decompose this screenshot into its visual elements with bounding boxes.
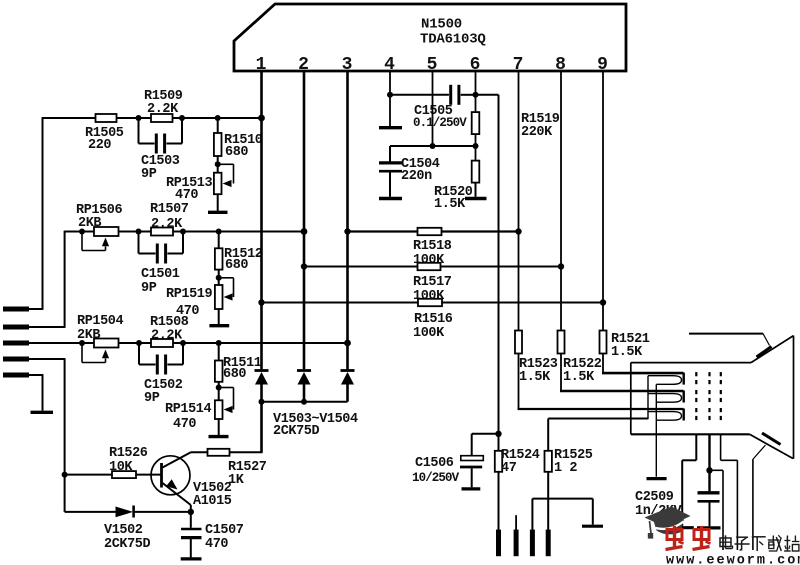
connector stub floating xyxy=(515,515,517,556)
pin 7 number label xyxy=(513,55,524,75)
CRT heater rail 2 xyxy=(655,384,657,477)
wire row2 left segment xyxy=(65,231,94,233)
label R1526 10K xyxy=(109,446,148,475)
svg-text:220n: 220n xyxy=(401,169,432,184)
wire RP1514 to ground xyxy=(218,419,220,435)
pin 1 number label xyxy=(256,55,267,75)
wire R1527 to pin1 column xyxy=(230,451,263,453)
wire row3 to R1511 xyxy=(218,343,220,361)
wire stub-a to row1 riser xyxy=(29,117,43,310)
resistor R1519 xyxy=(472,112,480,134)
svg-text:1.5K: 1.5K xyxy=(611,345,643,360)
wire R1517 net left (pin2 to R1517) xyxy=(304,266,418,268)
wire pin3 column below diode xyxy=(346,384,349,402)
resistor R1507 xyxy=(151,228,173,236)
ground under RP1514 xyxy=(209,435,229,438)
wire CRT grid lead 1 (jog left) xyxy=(682,434,696,526)
wire R1511 to RP1514 xyxy=(218,382,220,401)
resistor R1525 xyxy=(545,451,552,472)
CRT gun 1 cathode bar xyxy=(683,373,685,385)
label RP1519 470 xyxy=(166,287,213,319)
resistor R1508 xyxy=(151,339,173,347)
svg-text:RP1504: RP1504 xyxy=(77,314,124,329)
wire C1504 net (pin5/pin6 to C1504) xyxy=(390,146,476,162)
node row3/C1502 left xyxy=(136,340,142,346)
watermark graduation cap xyxy=(645,507,691,539)
node row2 at pin2 column xyxy=(301,228,308,235)
svg-text:470: 470 xyxy=(173,417,196,432)
wire node to R1524 xyxy=(498,434,500,451)
wire R1510 to RP1513 xyxy=(217,156,219,173)
resistor R1520 xyxy=(472,161,480,183)
wire pin 2 column xyxy=(303,70,306,369)
capacitor C1501 (parallel with R1507) xyxy=(139,232,184,264)
node diode bus at pin1 xyxy=(259,399,265,405)
resistor R1509 xyxy=(151,114,173,122)
wire node to focus lead xyxy=(710,470,724,550)
CRT gun 2 heater filament xyxy=(648,394,682,403)
svg-text:220K: 220K xyxy=(521,125,553,140)
capacitor C2509 xyxy=(698,493,720,527)
wire row2 to R1512 xyxy=(218,232,220,249)
node pin6/C1505/feedback xyxy=(473,92,479,98)
node row1 at pin1 column xyxy=(258,115,265,122)
ground under R1520 xyxy=(465,197,487,200)
svg-text:470: 470 xyxy=(205,537,228,552)
svg-text:9P: 9P xyxy=(141,281,157,296)
svg-text:C1501: C1501 xyxy=(141,267,180,282)
CRT funnel outline xyxy=(750,336,794,459)
wire CRT grid lead 3 (jog right) xyxy=(721,434,738,550)
label R1516 100K xyxy=(413,312,453,341)
svg-text:470: 470 xyxy=(175,188,198,203)
ground under heater rail xyxy=(647,477,667,480)
node row2/R1512 branch xyxy=(216,229,222,235)
svg-text:1K: 1K xyxy=(228,473,245,488)
wire R1516 net left (pin1 to R1516) xyxy=(262,302,419,304)
svg-text:2.2K: 2.2K xyxy=(147,102,179,117)
svg-text:1.5K: 1.5K xyxy=(563,370,595,385)
svg-text:2KB: 2KB xyxy=(78,216,101,231)
wire row1 right segment to pin1 xyxy=(173,117,262,119)
node row3/C1502 right xyxy=(180,340,186,346)
wire feedback column (x=498.5) down to R1524 node xyxy=(498,95,500,434)
resistor R1510 xyxy=(214,133,222,156)
capacitor C1504 xyxy=(379,163,402,197)
node row1/R1510 branch xyxy=(215,115,221,121)
node R1517 net at pin2 xyxy=(301,263,307,269)
capacitor C1506 (electrolytic) xyxy=(460,456,483,488)
label RP1506 2KB xyxy=(76,203,123,231)
wire grid-ground net xyxy=(532,499,592,530)
svg-text:RP1514: RP1514 xyxy=(165,402,212,417)
svg-text:N1500: N1500 xyxy=(421,17,462,33)
wire pin 8 column xyxy=(560,70,562,331)
ground under grid lead 1 xyxy=(676,526,694,529)
node row1/C1503 right xyxy=(179,115,185,121)
wire RP1513 to ground xyxy=(217,194,219,211)
svg-text:R1507: R1507 xyxy=(150,202,189,217)
node pin4/C1505 xyxy=(387,92,393,98)
ground under C2509 xyxy=(697,526,721,529)
svg-text:2KB: 2KB xyxy=(77,328,100,343)
CRT neck outline xyxy=(631,363,751,435)
CRT top anode tick xyxy=(757,347,772,358)
pin 4 number label xyxy=(384,55,395,75)
wire row1 to R1510 xyxy=(217,118,219,133)
svg-text:220: 220 xyxy=(88,138,111,153)
wire R1526 to base xyxy=(136,474,162,476)
ground bottom middle xyxy=(582,525,603,528)
node base net / stub-d column xyxy=(62,472,68,478)
label RP1504 2KB xyxy=(77,314,124,343)
wire row1 left segment xyxy=(43,117,96,119)
potentiometer RP1519 xyxy=(215,278,234,309)
svg-text:R1517: R1517 xyxy=(413,275,452,290)
svg-text:RP1519: RP1519 xyxy=(166,287,213,302)
connector stub on grid-ground net xyxy=(530,530,535,557)
node R1512/RP1519 junction xyxy=(216,275,222,281)
connector stub under R1524 xyxy=(496,530,501,557)
wire R1518 net left (pin3 to R1518) xyxy=(348,230,418,232)
svg-text:680: 680 xyxy=(225,145,248,160)
wire to ground stem xyxy=(592,499,594,525)
node R1518 net at pin7 xyxy=(515,228,521,234)
wire row2 mid segment xyxy=(119,231,152,233)
label V1503~V1504 2CK75D xyxy=(273,412,358,439)
wire row3 right segment to pin3 xyxy=(173,342,348,344)
resistor R1527 xyxy=(208,449,230,456)
svg-text:1 2: 1 2 xyxy=(554,461,577,476)
capacitor C1507 xyxy=(181,512,202,558)
label V1502 2CK75D xyxy=(104,523,151,552)
label C1507 470 xyxy=(205,523,244,552)
node R1516 net at pin9 xyxy=(600,299,606,305)
CRT gun 2 cathode bar xyxy=(683,391,685,403)
potentiometer RP1514 xyxy=(215,388,234,420)
resistor R1511 xyxy=(215,361,223,382)
wire row2 right segment to pin2 xyxy=(173,231,304,233)
diode V1503/V1504 (2CK75D) on pin 2 column xyxy=(297,371,311,385)
resistor R1517 xyxy=(418,263,441,270)
label R1525 1 2 xyxy=(554,448,593,476)
node row2/RP1506 wiper xyxy=(79,229,85,235)
wire stub-e to ground xyxy=(29,374,43,410)
wire R1520 to ground xyxy=(475,183,477,197)
node pin6 column / C1504 net xyxy=(473,143,479,149)
CRT gun 3 cathode bar xyxy=(683,409,685,421)
pin 8 number label xyxy=(555,55,566,75)
capacitor C1502 (parallel with R1508) xyxy=(139,343,183,375)
svg-text:2.2K: 2.2K xyxy=(151,329,183,344)
CRT gun 3 heater filament xyxy=(648,412,682,421)
label R1510 680 xyxy=(224,133,263,160)
CRT bottom anode tick xyxy=(762,433,781,445)
label R1518 100K xyxy=(413,239,452,268)
wire CRT bottom anode lead xyxy=(753,445,766,550)
wire stub-b to row2 riser xyxy=(29,231,65,328)
wire pin 9 column xyxy=(602,70,604,331)
node R1517 net at pin8 xyxy=(558,263,564,269)
svg-text:680: 680 xyxy=(223,367,246,382)
node row1/C1503 left xyxy=(136,115,142,121)
svg-text:9P: 9P xyxy=(141,167,157,182)
node row3 at pin3 column xyxy=(344,340,351,347)
ground under C1504 xyxy=(379,197,402,200)
node row2/C1501 left xyxy=(136,229,142,235)
label R1523 1.5K xyxy=(519,357,558,385)
svg-text:10K: 10K xyxy=(109,460,133,475)
node collector/diode/C1507 xyxy=(188,509,194,515)
wire pin 3 column xyxy=(346,70,349,369)
svg-text:2CK75D: 2CK75D xyxy=(273,424,320,439)
node row2/C1501 right xyxy=(180,229,186,235)
wire R1525 to connector stub xyxy=(547,472,549,530)
ground under pin 4 xyxy=(379,126,402,129)
wire pin 4 column xyxy=(389,70,391,126)
node row3/R1511 branch xyxy=(216,340,222,346)
svg-text:2CK75D: 2CK75D xyxy=(104,537,151,552)
wire row3 left segment xyxy=(29,342,94,344)
label C1502 9P xyxy=(144,378,183,406)
resistor R1505 xyxy=(96,114,117,122)
label C1503 9P xyxy=(141,154,180,182)
wire emitter to R1527 xyxy=(191,451,208,453)
wire R1525 to CRT grid (y=418.5) xyxy=(548,418,648,420)
label C1506 10/250V xyxy=(412,456,460,485)
svg-text:9P: 9P xyxy=(144,391,160,406)
potentiometer RP1513 xyxy=(214,164,234,194)
svg-text:2.2K: 2.2K xyxy=(151,217,183,232)
watermark red character chong 1 xyxy=(666,526,684,550)
CRT heater rail 1 xyxy=(647,376,649,420)
label C1504 220n xyxy=(401,157,440,184)
connector stub pin e (to ground) xyxy=(3,373,29,378)
label V1502 A1015 xyxy=(193,481,232,509)
wire pin 1 column xyxy=(260,70,263,369)
svg-text:C1506: C1506 xyxy=(415,456,454,471)
watermark red character chong 2 xyxy=(693,526,711,550)
svg-text:V1502: V1502 xyxy=(104,523,143,538)
node diode bus at pin2 xyxy=(301,399,307,405)
CRT gun 1 heater filament xyxy=(648,376,682,385)
label R1509 2.2K xyxy=(144,89,183,117)
wire R1516 net right (to pin9) xyxy=(442,302,603,304)
label C1501 9P xyxy=(141,267,180,296)
svg-text:R1516: R1516 xyxy=(414,312,453,327)
svg-text:0.1/250V: 0.1/250V xyxy=(413,116,467,130)
label R1520 1.5K xyxy=(434,185,473,212)
label R1517 100K xyxy=(413,275,452,304)
wire stub-d dropper to base net xyxy=(29,358,65,475)
node R1511/RP1514 junction xyxy=(216,385,222,391)
pin 2 number label xyxy=(298,55,309,75)
label R1527 1K xyxy=(228,460,267,488)
svg-text:R1518: R1518 xyxy=(413,239,452,254)
wire C1506 branch xyxy=(472,434,499,456)
diode V1502 2CK75D xyxy=(116,506,191,518)
label C1505 0.1/250V xyxy=(413,104,467,130)
wire pin 6 column upper xyxy=(475,70,477,112)
pin 6 number label xyxy=(470,55,481,75)
wire pin6 node to feedback column xyxy=(476,94,499,96)
label R1522 1.5K xyxy=(563,357,602,385)
svg-text:R1526: R1526 xyxy=(109,446,148,461)
node R1516 net at pin1 xyxy=(258,299,264,305)
node R1518 net at pin3 xyxy=(344,228,350,234)
wire stub-d column to diode row xyxy=(65,475,116,512)
connector stub pin c (to row3) xyxy=(3,341,29,346)
wire R1525 top riser xyxy=(547,419,549,451)
ground under stub-e xyxy=(31,411,54,414)
svg-text:TDA6103Q: TDA6103Q xyxy=(420,32,486,48)
svg-text:www.eeworm.com: www.eeworm.com xyxy=(666,554,800,565)
pin 9 number label xyxy=(597,55,608,75)
node grid lead 2 xyxy=(706,467,712,473)
wire row3 mid segment xyxy=(119,342,152,344)
potentiometer RP1504 xyxy=(82,339,119,363)
label RP1514 470 xyxy=(165,402,212,432)
diode V1503 (2CK75D) on pin 1 column xyxy=(255,371,269,385)
watermark text dianzi xiazaizhan xyxy=(720,535,799,551)
label R1524 47 xyxy=(501,448,540,476)
wire CRT top anode lead xyxy=(689,334,770,346)
svg-text:C1507: C1507 xyxy=(205,523,244,538)
label R1505 220 xyxy=(85,126,124,153)
resistor R1512 xyxy=(215,248,223,269)
wire pin1 column below diode to R1527 xyxy=(260,384,263,452)
wire RP1519 to ground xyxy=(218,309,220,324)
svg-text:1.5K: 1.5K xyxy=(434,197,466,212)
connector stub pin b (to row2) xyxy=(3,325,29,330)
capacitor C1503 (parallel with R1509) xyxy=(139,118,183,154)
connector stub pin a (to row1) xyxy=(3,307,29,312)
wire R1523 to gun3 cathode xyxy=(518,354,684,410)
wire row1 mid segment xyxy=(117,117,152,119)
label R1508 2.2K xyxy=(150,315,189,344)
potentiometer RP1506 xyxy=(82,227,119,251)
label R1511 680 xyxy=(223,356,262,382)
transistor V1502 A1015 (PNP) xyxy=(151,452,191,512)
wire R1524 to connector stub xyxy=(498,472,500,530)
label C2509 1n/2KV xyxy=(635,490,683,519)
wire R1518 net right (to pin7) xyxy=(442,230,519,232)
svg-text:100K: 100K xyxy=(413,326,445,341)
op-amp/IC N1500 TDA6103Q body xyxy=(234,4,626,71)
ground bar under C1506 xyxy=(462,487,481,490)
svg-text:680: 680 xyxy=(225,258,248,273)
label R1521 1.5K xyxy=(611,332,650,360)
node R1510/RP1513 junction xyxy=(215,161,221,167)
wire pin2 column below diode xyxy=(303,384,306,402)
pin 3 number label xyxy=(342,55,353,75)
resistor R1518 xyxy=(418,228,442,235)
connector stub pin d (to transistor base net) xyxy=(3,357,29,362)
CRT grid electrodes (dashed) xyxy=(696,372,721,420)
wire base net left xyxy=(65,474,112,476)
node feedback/R1524/C1506 xyxy=(495,431,501,437)
svg-text:10/250V: 10/250V xyxy=(412,471,460,485)
node pin5 to C1504 net xyxy=(430,143,436,149)
node row3/RP1504 wiper xyxy=(79,340,85,346)
label RP1513 470 xyxy=(166,176,213,203)
wire R1517 net right (to pin8) xyxy=(441,266,562,268)
resistor R1523 xyxy=(515,331,522,354)
wire CRT grid lead 2 to C2509 xyxy=(708,434,710,491)
label R1512 680 xyxy=(224,247,263,273)
svg-text:A1015: A1015 xyxy=(193,494,232,509)
pin 5 number label xyxy=(427,55,438,75)
wire R1522 to gun2 cathode xyxy=(560,354,684,392)
wire R1512 to RP1519 xyxy=(218,270,220,285)
ground under RP1519 xyxy=(209,324,229,327)
wire pin 5 column xyxy=(432,70,434,146)
wire diode cathode bus xyxy=(261,401,348,403)
capacitor C1505 (pin4 to pin6) xyxy=(390,85,476,105)
resistor R1516 xyxy=(418,299,442,306)
resistor R1524 xyxy=(495,451,502,472)
resistor R1521 xyxy=(600,331,607,354)
connector stub under R1525 xyxy=(546,530,551,557)
diode V1504 (2CK75D) on pin 3 column xyxy=(341,371,355,385)
ground bar under C1507 xyxy=(181,557,202,560)
wire R1521 to gun1 cathode xyxy=(602,354,684,374)
resistor R1522 xyxy=(558,331,565,354)
ground under RP1513 xyxy=(208,211,228,214)
svg-text:C2509: C2509 xyxy=(635,490,674,505)
wire R1519 to R1520 xyxy=(475,134,477,161)
resistor R1526 xyxy=(112,471,136,478)
label R1507 2.2K xyxy=(150,202,189,232)
watermark url www.eeworm.com xyxy=(666,554,800,565)
wire pin 7 column xyxy=(518,70,520,331)
svg-text:1.5K: 1.5K xyxy=(519,370,551,385)
svg-text:47: 47 xyxy=(501,461,517,476)
label R1519 220K xyxy=(521,112,560,140)
